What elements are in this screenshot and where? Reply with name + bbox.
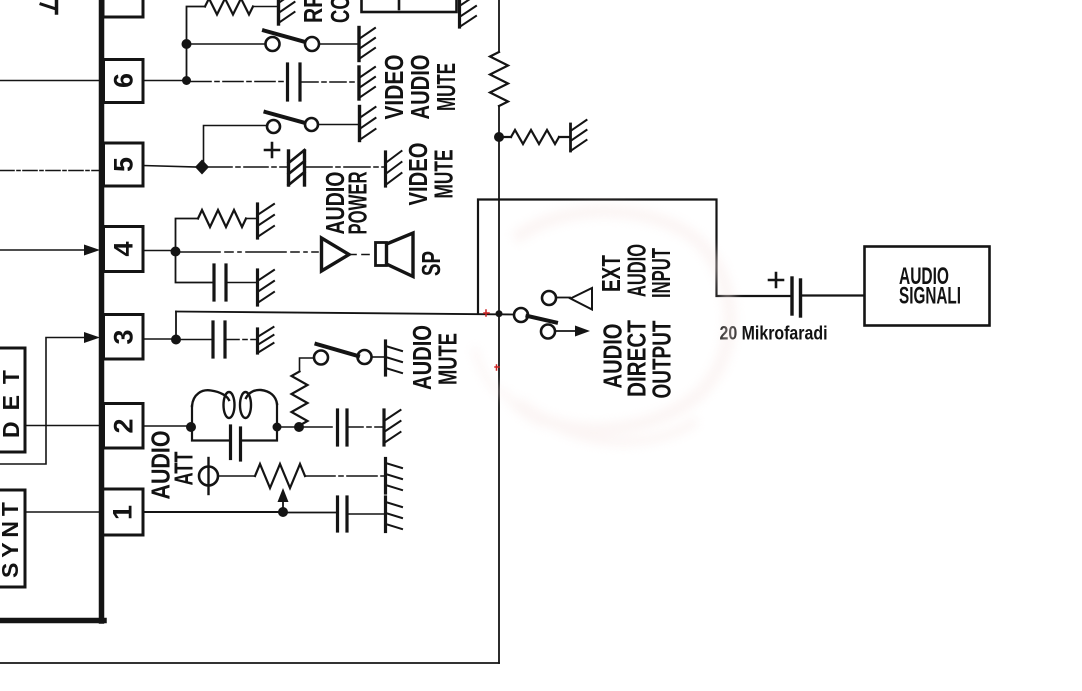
wire ext contact to triangle [556, 297, 570, 299]
ground G5 [256, 270, 259, 305]
loop wire to output [478, 200, 790, 314]
wiper arrow into R4 [282, 501, 284, 512]
ground G2a [357, 28, 360, 61]
svg-text:DET: DET [0, 370, 24, 438]
electrolytic capacitor C2 [287, 151, 290, 185]
pin 6 box [104, 60, 144, 103]
switch S4 common [514, 308, 528, 322]
resistor R6 [504, 130, 569, 144]
wire pin3 to capacitor C4 [181, 339, 211, 341]
switch S2 (video mute) [267, 120, 280, 133]
inductor L1 [192, 390, 229, 406]
bottom frame wire [0, 662, 499, 664]
resistor R4 [255, 464, 305, 488]
wire P1 to R4 [218, 475, 255, 477]
pin 5 box [104, 143, 144, 186]
wire pin5 right [143, 166, 197, 168]
switch S4 ext contact [542, 291, 556, 305]
pin 3 box [104, 315, 144, 360]
wire top right vertical [498, 0, 500, 51]
wire R1 to ground [253, 6, 277, 8]
arrowhead pin4 [84, 245, 100, 256]
red mark a [484, 310, 489, 316]
svg-text:POWER: POWER [343, 171, 373, 234]
junction pin4 [171, 247, 181, 257]
junction pin1 [278, 507, 288, 517]
ground G12 [458, 0, 461, 27]
wire up to switch node [186, 44, 188, 81]
wire pin4 to amplifier [180, 251, 318, 253]
speaker SP [376, 243, 387, 266]
wire pin3 arrow line [0, 338, 84, 465]
svg-text:MUTE: MUTE [431, 63, 461, 111]
wire amp to speaker [349, 254, 374, 256]
junction diamond pin5 [195, 160, 209, 175]
junction pin6 [182, 76, 191, 85]
arrow AUDIO DIRECT OUTPUT [555, 330, 578, 332]
wire S3 to ground [372, 356, 385, 358]
capacitor C5 (tank) [229, 426, 232, 459]
ground G11 [569, 124, 572, 151]
wire pin5 left [0, 170, 103, 172]
wire row3 switch left [204, 126, 268, 169]
wire S1 to ground [319, 43, 358, 45]
wire C3 to ground [228, 282, 256, 284]
svg-text:RF: RF [298, 0, 328, 23]
junction node top [182, 39, 192, 49]
plus sign C2 [265, 143, 279, 157]
wire node up to resistor R1 [187, 7, 206, 45]
wire R3 to switch S3 [300, 358, 315, 372]
wire pin2 right [143, 425, 187, 427]
svg-text:3: 3 [109, 330, 139, 345]
ground G6 [256, 329, 259, 353]
SYNT box [0, 490, 25, 587]
pin 2 box [104, 404, 144, 449]
wire S2 to ground [318, 124, 359, 126]
svg-text:MUTE: MUTE [433, 333, 463, 385]
potentiometer P1 (audio att) [199, 467, 218, 486]
ground G10 [384, 497, 387, 532]
switch S3 (audio mute) [314, 351, 328, 365]
wire C2 to ground [306, 166, 384, 168]
ground G1 [277, 0, 280, 24]
wire pin6 left [0, 80, 103, 82]
wire C7 to ground [349, 513, 384, 515]
capacitor C3 [212, 265, 215, 300]
wire pin4 right [143, 250, 171, 252]
wire R5 down [498, 106, 500, 663]
wire pin3 up [175, 312, 177, 340]
wire up to resistor R2 [176, 219, 199, 252]
capacitor C4 [211, 322, 214, 357]
svg-text:CON: CON [325, 0, 355, 23]
box top right (cut) [362, 0, 457, 12]
ground G8 [382, 410, 385, 445]
ground G4 [256, 204, 259, 238]
svg-text:ATT: ATT [169, 451, 199, 485]
wire SYNT to pin1 [25, 511, 101, 513]
ground G7 [384, 341, 387, 375]
resistor R1 [205, 0, 253, 15]
svg-text:5: 5 [109, 157, 139, 172]
wire C1 to ground [302, 81, 358, 83]
DET box [0, 348, 25, 452]
wire pin6 to capacitor C1 [191, 81, 285, 83]
wire down to capacitor C3 [176, 252, 213, 283]
wire node to capacitor C6 [304, 426, 332, 428]
resistor R3 (vertical) [292, 372, 308, 426]
junction audio line crossing [496, 310, 503, 317]
ground G2b [357, 67, 360, 99]
tank circuit frame [192, 404, 277, 441]
switch S1 (RF converter mute) [266, 37, 280, 51]
junction tank right [273, 423, 282, 432]
svg-text:6: 6 [109, 73, 139, 88]
wire C4 to ground [227, 339, 256, 341]
plus sign C8 [769, 273, 783, 287]
wire pin6 right [143, 80, 187, 82]
partial symbol top-left [55, 0, 59, 13]
wire pin1 to capacitor C7 [288, 512, 336, 514]
junction node pin2 net [294, 422, 304, 432]
arrowhead pin3 [84, 332, 100, 343]
switch S4 output contact [541, 325, 555, 339]
wire pin1 right [143, 511, 278, 513]
junction tank left [186, 422, 196, 432]
junction R5/R6 [494, 132, 504, 142]
wire DET to pin2 [25, 425, 103, 427]
wire to electrolytic C2 [208, 166, 287, 168]
pin 7 box (cut at top) [103, 0, 143, 17]
junction pin3 [171, 335, 181, 345]
op-amp U1 (audio power amp) [322, 238, 350, 271]
ground G3 [384, 152, 387, 186]
capacitor C1 [286, 64, 289, 100]
svg-text:SP: SP [416, 251, 446, 276]
svg-text:INPUT: INPUT [646, 248, 676, 298]
svg-text:OUTPUT: OUTPUT [647, 320, 677, 398]
pin 4 box [104, 227, 144, 272]
IC body edge [99, 0, 105, 621]
scan smudges [475, 211, 730, 441]
switch S4 lever [528, 316, 557, 323]
capacitor C8 (20 uF) [790, 278, 793, 314]
resistor R2 [198, 210, 246, 227]
box AUDIO SIGNALI [865, 247, 990, 326]
wire node to switch S1 [187, 43, 266, 45]
wire R4 to ground [305, 475, 384, 477]
svg-text:SIGNALI: SIGNALI [899, 283, 961, 310]
wire C6 to ground [349, 426, 382, 428]
wire C8 to box [803, 294, 865, 296]
ground G9 [384, 459, 387, 494]
svg-text:1: 1 [108, 505, 138, 520]
svg-text:MUTE: MUTE [429, 150, 459, 199]
red mark b [495, 365, 499, 370]
box content tick [398, 0, 401, 9]
node EXT AUDIO INPUT (triangle) [571, 288, 593, 310]
wire pin3 right [143, 338, 172, 340]
wire R2 to ground [246, 218, 256, 220]
ground G2c [358, 107, 361, 141]
pin 1 box [101, 489, 144, 535]
capacitor C7 [336, 497, 339, 531]
resistor R5 (vertical) [490, 52, 508, 106]
svg-text:2: 2 [109, 419, 139, 434]
wire pin4 left [0, 249, 86, 251]
capacitor C6 [336, 410, 339, 445]
main audio wire to switch [176, 312, 514, 315]
wire tank to node [277, 426, 294, 428]
svg-text:4: 4 [109, 242, 139, 257]
